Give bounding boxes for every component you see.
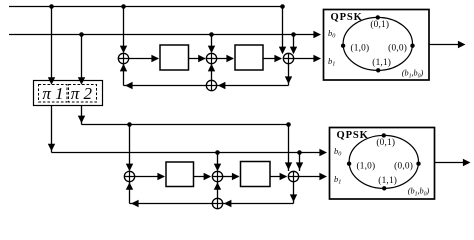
svg-text:π 2: π 2 [71,84,93,103]
svg-text:QPSK: QPSK [331,12,363,23]
svg-text:(1,1): (1,1) [378,175,397,186]
svg-text:(1,1): (1,1) [372,57,391,68]
svg-text:(1,0): (1,0) [356,161,375,172]
svg-text:QPSK: QPSK [337,130,369,141]
svg-text:(1,0): (1,0) [350,43,369,54]
svg-text:(0,0): (0,0) [394,161,413,172]
svg-text:(0,0): (0,0) [388,43,407,54]
svg-text:(0,1): (0,1) [376,137,395,148]
svg-text:(0,1): (0,1) [370,19,389,30]
svg-text:π 1: π 1 [42,84,63,103]
